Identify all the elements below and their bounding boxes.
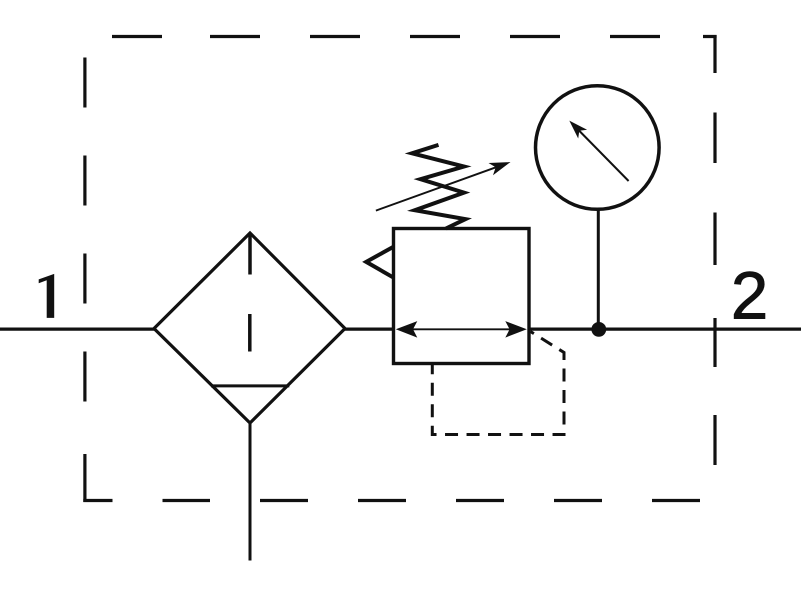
enclosure dashed border (left edge) xyxy=(83,58,86,503)
regulator flow arrowhead left xyxy=(396,321,418,338)
regulator pilot dashed line xyxy=(432,332,564,435)
wire: regulator to port 2 xyxy=(528,328,801,331)
filter element centre dash xyxy=(248,314,252,352)
wire: inlet from port 1 to filter xyxy=(0,328,156,331)
junction node (gauge tap dot) xyxy=(591,322,606,337)
regulator adjustment arrowhead xyxy=(489,162,511,175)
regulator valve body R1 xyxy=(394,229,530,364)
filter F1 (diamond body) xyxy=(154,233,345,423)
regulator relief chevron (left of body) xyxy=(366,247,393,278)
regulator adjustment arrow shaft xyxy=(376,166,499,210)
gauge needle shaft xyxy=(578,129,629,181)
filter water separator line xyxy=(211,384,289,387)
enclosure dashed border (bottom edge) xyxy=(83,499,700,502)
wire: gauge stem xyxy=(597,209,600,329)
gauge needle arrowhead xyxy=(569,121,587,139)
filter drain line xyxy=(249,423,252,561)
wire: filter to regulator xyxy=(343,328,395,331)
port 1 label xyxy=(39,274,55,318)
regulator spring (zigzag above body) xyxy=(412,145,466,229)
regulator flow arrowhead right xyxy=(505,321,527,338)
enclosure dashed border (top edge) xyxy=(112,35,717,38)
regulator flow double arrow shaft xyxy=(406,328,516,330)
svg-text:2: 2 xyxy=(731,259,768,334)
filter top tick xyxy=(248,235,252,275)
enclosure dashed border (right edge) xyxy=(713,35,716,465)
pressure gauge G1 (dial) xyxy=(536,86,660,210)
